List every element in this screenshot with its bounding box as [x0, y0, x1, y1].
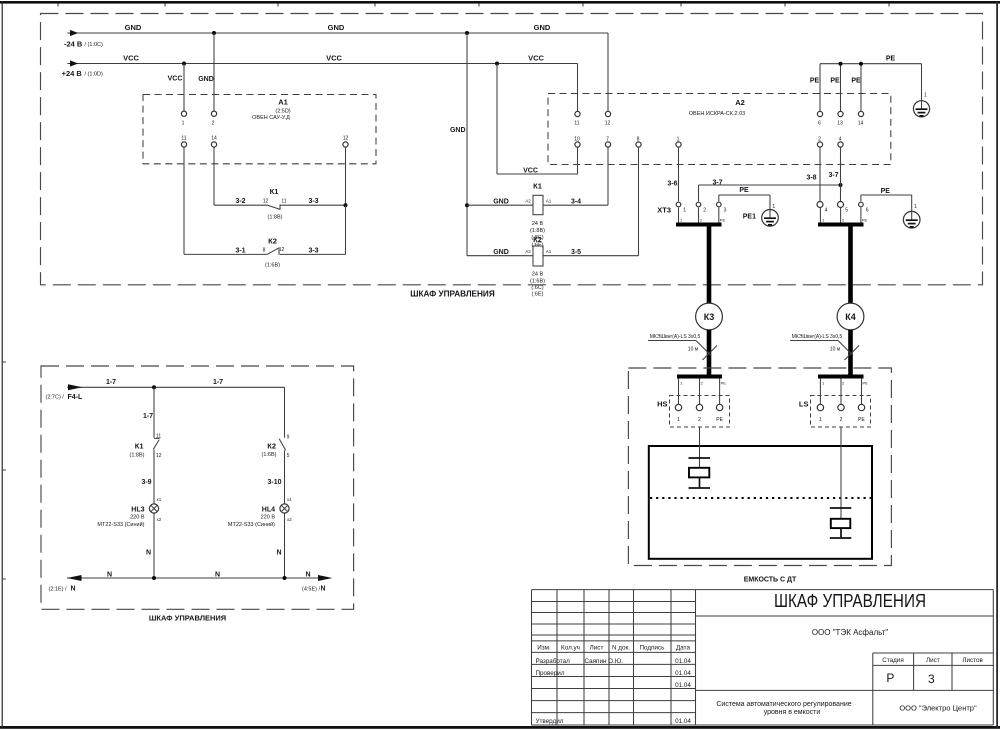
- title block table: [532, 590, 994, 725]
- svg-text:N док.: N док.: [612, 644, 630, 651]
- svg-text:(2:5D): (2:5D): [275, 108, 290, 114]
- junction N-HL3: [152, 576, 156, 580]
- wire A1.12 down to K1 row: [345, 147, 347, 205]
- svg-text:N: N: [321, 586, 326, 593]
- svg-text:ШКАФ УПРАВЛЕНИЯ: ШКАФ УПРАВЛЕНИЯ: [774, 590, 926, 611]
- wire 3-9: [141, 450, 154, 504]
- cabinet enclosure box bottom-left (ШКАФ УПРАВЛЕНИЯ lamps): [41, 366, 354, 623]
- svg-text:МТ22-S33 (Синий): МТ22-S33 (Синий): [97, 521, 144, 528]
- svg-text:VCC: VCC: [528, 53, 544, 62]
- svg-text:ООО "Электро Центр": ООО "Электро Центр": [899, 704, 977, 713]
- wire right vertical K1 to K2 row: [345, 205, 347, 254]
- lamp HL3: [97, 497, 161, 528]
- title block drawing name: [774, 590, 926, 637]
- svg-text:1: 1: [914, 204, 917, 210]
- svg-text:13: 13: [837, 121, 843, 127]
- cable label W2 МКЭШвнг(А)-LS 3x0,5: [790, 334, 859, 360]
- junction 1-7 left branch: [152, 385, 156, 389]
- wire 3-6 A2 pin1 to XT3.1: [667, 147, 678, 201]
- coil K1: [467, 182, 608, 249]
- svg-text:2: 2: [842, 381, 845, 386]
- tank enclosure box (ЕМКОСТЬ С ДТ): [628, 368, 891, 583]
- junction VCC feed: [495, 62, 499, 66]
- svg-text:3-2: 3-2: [235, 198, 245, 205]
- sensor gland bar HS: [677, 375, 726, 405]
- svg-text:5: 5: [287, 453, 290, 459]
- wire PE to A2 pin 6: [819, 64, 821, 112]
- svg-text:HS: HS: [657, 399, 667, 408]
- pin A2.14: [858, 111, 864, 126]
- svg-text:ШКАФ УПРАВЛЕНИЯ: ШКАФ УПРАВЛЕНИЯ: [410, 290, 495, 299]
- title block header row: [537, 644, 690, 651]
- svg-text:(1:6В): (1:6В): [265, 263, 280, 269]
- svg-text:01.04: 01.04: [675, 658, 691, 665]
- svg-text:x2: x2: [287, 517, 292, 522]
- controller A1 ОВЕН САУ-У.Д: [143, 95, 376, 164]
- svg-text:GND: GND: [534, 23, 551, 32]
- svg-text:Утвердил: Утвердил: [536, 718, 564, 725]
- svg-text:(:6С): (:6С): [531, 285, 543, 291]
- svg-text:A1: A1: [546, 198, 552, 203]
- svg-text:N: N: [215, 572, 220, 579]
- svg-text:GND: GND: [328, 23, 345, 32]
- title block stage cells: [882, 657, 983, 686]
- junction PE-14: [859, 62, 863, 66]
- junction GND main vertical: [465, 31, 469, 35]
- svg-text:VCC: VCC: [523, 168, 538, 175]
- svg-text:01.04: 01.04: [675, 682, 691, 689]
- wire GND drop to A1 pin 2: [198, 33, 214, 111]
- svg-text:1: 1: [819, 417, 822, 423]
- wire PE to A2 pin 13: [840, 64, 842, 112]
- net GND bus -24V: [64, 23, 608, 48]
- svg-text:6: 6: [866, 207, 869, 213]
- svg-text:14: 14: [211, 136, 217, 142]
- pin A1.14: [211, 136, 217, 147]
- svg-text:К3: К3: [704, 312, 715, 322]
- svg-text:3-1: 3-1: [235, 247, 245, 254]
- wire K1 coil to A2 pin 7: [607, 147, 609, 205]
- pin A2.6: [817, 111, 822, 126]
- svg-text:PE: PE: [716, 417, 723, 423]
- svg-text:1-7: 1-7: [143, 413, 153, 420]
- svg-text:1: 1: [680, 218, 683, 223]
- contact K1 lamp circuit: [130, 433, 162, 459]
- contact K1 (aux): [214, 187, 346, 221]
- wire PE to A2 pin 14: [860, 64, 862, 112]
- svg-text:К2: К2: [267, 441, 276, 450]
- junction N-HL4: [283, 576, 287, 580]
- svg-text:N: N: [107, 572, 112, 579]
- svg-text:3: 3: [724, 207, 727, 213]
- svg-text:К2: К2: [268, 237, 277, 246]
- svg-text:ХТ3: ХТ3: [657, 205, 671, 214]
- svg-text:3-4: 3-4: [571, 199, 581, 206]
- svg-text:3-3: 3-3: [308, 198, 318, 205]
- svg-text:11: 11: [574, 121, 579, 127]
- fuel level dotted line: [650, 497, 871, 499]
- svg-text:PE: PE: [810, 77, 820, 84]
- svg-text:(1:8В): (1:8В): [130, 452, 145, 458]
- svg-text:3-5: 3-5: [571, 249, 581, 256]
- svg-text:F4-L: F4-L: [68, 394, 84, 401]
- wire LS to sensor: [840, 427, 842, 519]
- svg-text:PE: PE: [739, 187, 749, 194]
- net F4-L 1-7 top bus: [46, 379, 285, 401]
- junction K1/A1.12: [344, 203, 348, 207]
- svg-text:GND: GND: [198, 76, 214, 83]
- svg-text:К4: К4: [845, 312, 856, 322]
- svg-text:3-3: 3-3: [308, 247, 318, 254]
- svg-text:PE: PE: [721, 381, 727, 386]
- junction PE-13: [839, 62, 843, 66]
- wire 3-10: [267, 450, 284, 504]
- wire A1.11 down to K2 row: [183, 147, 185, 254]
- pin A2.7: [605, 136, 610, 147]
- terminal XT3.3: [717, 202, 727, 213]
- svg-text:6: 6: [818, 121, 821, 127]
- svg-text:N: N: [71, 586, 76, 593]
- coil K2: [467, 235, 639, 298]
- svg-text:Стадия: Стадия: [882, 657, 903, 664]
- wire right branch from bus corner: [284, 387, 286, 437]
- svg-text:МКЭШвнг(А)-LS 3х0,5: МКЭШвнг(А)-LS 3х0,5: [650, 334, 701, 340]
- wire A2 pin4 to XT3.5: [840, 147, 842, 201]
- svg-text:12: 12: [156, 453, 162, 459]
- svg-text:3: 3: [928, 672, 935, 686]
- pin A2.2: [817, 136, 822, 147]
- svg-text:2: 2: [701, 381, 704, 386]
- svg-text:A2: A2: [525, 198, 531, 203]
- svg-text:Проверил: Проверил: [536, 670, 565, 677]
- svg-text:Листов: Листов: [962, 657, 983, 664]
- junction GND-K1 coil: [465, 203, 469, 207]
- svg-text:Кол.уч: Кол.уч: [561, 644, 580, 651]
- svg-text:1: 1: [822, 218, 825, 223]
- cable W1 upper: [707, 227, 712, 304]
- wire VCC drop to A1 pin 1: [168, 64, 184, 112]
- svg-text:Изм.: Изм.: [537, 644, 551, 651]
- sensor gland bar LS: [818, 375, 868, 405]
- pin A2.12: [605, 111, 611, 126]
- svg-text:GND: GND: [493, 249, 509, 256]
- terminal strip XT3: [657, 205, 671, 214]
- svg-text:(:6Е): (:6Е): [532, 292, 544, 298]
- svg-text:А1: А1: [278, 97, 288, 106]
- svg-text:PE: PE: [863, 381, 869, 386]
- svg-text:ЕМКОСТЬ С ДТ: ЕМКОСТЬ С ДТ: [744, 576, 797, 583]
- wire HL3 to N bus: [146, 513, 154, 578]
- svg-text:А2: А2: [735, 98, 745, 107]
- svg-text:VCC: VCC: [326, 53, 342, 62]
- pin A2.10: [574, 136, 580, 147]
- svg-text:24 В: 24 В: [532, 221, 544, 227]
- svg-text:VCC: VCC: [123, 53, 139, 62]
- svg-text:2: 2: [212, 121, 215, 127]
- svg-text:К1: К1: [135, 441, 144, 450]
- level sensor HS (high): [689, 458, 711, 488]
- pin LS.PE: [858, 404, 865, 423]
- title block signature rows: [536, 657, 692, 725]
- ground PE right: [903, 204, 920, 228]
- svg-text:5: 5: [845, 207, 848, 213]
- svg-text:10 м: 10 м: [830, 347, 841, 353]
- svg-text:Разработал: Разработал: [536, 657, 571, 665]
- svg-text:К2: К2: [533, 235, 542, 244]
- svg-text:3-7: 3-7: [828, 172, 838, 179]
- svg-text:12: 12: [263, 198, 269, 204]
- svg-text:1: 1: [683, 207, 686, 213]
- svg-text:(1:8В): (1:8В): [268, 215, 283, 221]
- tank vessel: [649, 446, 872, 559]
- svg-text:PE: PE: [720, 218, 726, 223]
- svg-text:14: 14: [858, 121, 864, 127]
- svg-text:Система автоматического регули: Система автоматического регулирование: [716, 701, 851, 708]
- cable W2 lower: [848, 330, 853, 375]
- pin A2.4: [838, 136, 843, 147]
- svg-text:LS: LS: [799, 399, 809, 408]
- svg-text:(4:5E) /: (4:5E) /: [302, 586, 321, 592]
- svg-text:(2:1E) /: (2:1E) /: [49, 586, 68, 592]
- svg-text:11: 11: [281, 198, 286, 204]
- svg-text:Лист: Лист: [926, 657, 940, 664]
- svg-text:/ (1:0C): / (1:0C): [85, 42, 104, 48]
- wire K2 coil to A2 pin 8: [638, 147, 640, 256]
- cable marker K4: [837, 303, 864, 330]
- svg-text:МКЭШвнг(А)-LS 3х0,5: МКЭШвнг(А)-LS 3х0,5: [792, 334, 843, 340]
- svg-text:PE: PE: [862, 218, 868, 223]
- svg-text:PE1: PE1: [743, 213, 756, 220]
- junction 3-7: [839, 183, 843, 187]
- svg-text:2: 2: [842, 218, 845, 223]
- svg-text:Саяпин О.Ю.: Саяпин О.Ю.: [585, 658, 624, 665]
- svg-text:4: 4: [825, 207, 828, 213]
- contact K2 lamp circuit: [262, 434, 290, 459]
- pin HS.PE: [716, 404, 723, 423]
- pin A2.8: [636, 136, 641, 147]
- cable W1 lower: [707, 330, 712, 375]
- svg-text:(1:6В): (1:6В): [530, 278, 545, 284]
- svg-text:ООО "ТЭК Асфальт": ООО "ТЭК Асфальт": [812, 628, 888, 637]
- net 3-7: [699, 172, 841, 201]
- net VCC bus +24V: [62, 53, 578, 78]
- svg-text:PE: PE: [851, 77, 861, 84]
- net PE left: [719, 187, 770, 210]
- svg-text:1-7: 1-7: [213, 379, 223, 386]
- svg-text:PE: PE: [858, 417, 865, 423]
- svg-text:01.04: 01.04: [675, 670, 691, 677]
- svg-text:МТ22-S33 (Синий): МТ22-S33 (Синий): [228, 521, 275, 528]
- svg-text:+24 В: +24 В: [62, 69, 83, 78]
- terminal XT3.2: [696, 202, 706, 213]
- svg-text:2: 2: [700, 218, 703, 223]
- net PE right: [861, 188, 912, 212]
- svg-text:1-7: 1-7: [106, 379, 116, 386]
- title block description: [716, 701, 977, 716]
- relay module A2 ОВЕН ИСКРА-СК.2.03: [548, 94, 891, 165]
- svg-text:GND: GND: [493, 198, 509, 205]
- svg-text:2: 2: [703, 207, 706, 213]
- svg-text:(2:7C) /: (2:7C) /: [46, 395, 65, 401]
- svg-text:A2: A2: [525, 249, 531, 254]
- cable gland bar right: [818, 208, 868, 227]
- pin LS.2: [838, 404, 844, 423]
- pin A1.1: [181, 111, 186, 126]
- svg-text:HL3: HL3: [131, 507, 144, 514]
- svg-text:8: 8: [263, 248, 266, 254]
- svg-text:N: N: [146, 549, 151, 556]
- svg-text:1: 1: [182, 121, 185, 127]
- svg-text:1: 1: [822, 381, 825, 386]
- svg-text:ОВЕН САУ-У.Д: ОВЕН САУ-У.Д: [252, 115, 290, 121]
- wire A1.14 down to K1 row: [213, 147, 215, 205]
- svg-text:К1: К1: [533, 182, 542, 191]
- svg-text:N: N: [305, 572, 310, 579]
- terminal XT3.1: [676, 202, 686, 213]
- contact K2 (aux): [184, 237, 346, 269]
- svg-text:3-9: 3-9: [141, 479, 151, 486]
- svg-text:220 В: 220 В: [130, 515, 145, 521]
- cable gland bar left: [676, 208, 725, 227]
- svg-text:3-6: 3-6: [667, 181, 677, 188]
- pin LS.1: [817, 404, 823, 423]
- svg-text:12: 12: [279, 247, 285, 253]
- svg-text:9: 9: [287, 434, 290, 440]
- cable W2 upper: [848, 227, 853, 304]
- svg-text:ОВЕН ИСКРА-СК.2.03: ОВЕН ИСКРА-СК.2.03: [689, 111, 745, 117]
- svg-text:ШКАФ УПРАВЛЕНИЯ: ШКАФ УПРАВЛЕНИЯ: [149, 614, 226, 623]
- terminal XT3.6: [859, 202, 869, 213]
- pin A2.1: [676, 136, 681, 147]
- svg-text:Р: Р: [886, 671, 894, 685]
- svg-text:PE: PE: [830, 77, 840, 84]
- svg-text:GND: GND: [450, 127, 466, 134]
- svg-text:x2: x2: [157, 517, 162, 522]
- svg-text:PE: PE: [886, 56, 896, 63]
- ground PE top right: [913, 64, 929, 117]
- wire HS to sensor: [699, 427, 701, 468]
- svg-text:01.04: 01.04: [675, 718, 691, 725]
- junction GND-A1.2: [212, 31, 216, 35]
- cabinet enclosure box top (ШКАФ УПРАВЛЕНИЯ): [41, 14, 983, 299]
- ground PE1: [743, 204, 779, 226]
- svg-text:24 В: 24 В: [532, 272, 544, 278]
- svg-text:1: 1: [680, 381, 683, 386]
- svg-text:1: 1: [924, 93, 927, 99]
- sensor connector LS: [799, 396, 871, 428]
- wire VCC bus turns down to A2 pin 11: [577, 64, 579, 112]
- level sensor LS (low): [830, 508, 852, 538]
- svg-text:Дата: Дата: [676, 644, 690, 651]
- svg-text:10 м: 10 м: [688, 347, 699, 353]
- wire VCC feed to A2 pin 10: [497, 64, 578, 175]
- svg-text:2: 2: [840, 417, 843, 423]
- svg-text:3-10: 3-10: [267, 479, 281, 486]
- wire HL4 to N bus: [276, 513, 284, 578]
- pin A2.11: [574, 111, 580, 126]
- terminal XT3.4: [817, 202, 828, 214]
- svg-text:/ (1:0D): / (1:0D): [85, 71, 104, 77]
- wire GND bus turns down to A2 pin 12: [607, 33, 609, 111]
- svg-text:(1:8В): (1:8В): [530, 228, 545, 234]
- svg-text:Лист: Лист: [590, 644, 604, 651]
- svg-text:-24 В: -24 В: [64, 39, 83, 48]
- svg-text:N: N: [276, 549, 281, 556]
- svg-text:GND: GND: [125, 23, 142, 32]
- wire GND main vertical drop: [450, 33, 467, 256]
- svg-text:Подпись: Подпись: [640, 644, 666, 651]
- pin A1.11: [181, 136, 186, 147]
- pin A1.2: [211, 111, 216, 126]
- svg-text:x1: x1: [157, 497, 162, 502]
- wire left branch upper: [143, 387, 154, 437]
- svg-text:VCC: VCC: [168, 75, 183, 82]
- sensor connector HS: [657, 396, 729, 428]
- svg-text:К1: К1: [270, 187, 279, 196]
- svg-text:(1:6В): (1:6В): [262, 452, 277, 458]
- net PE bus top right: [810, 56, 922, 85]
- pin A1.12: [343, 136, 349, 147]
- svg-text:уровня в емкости: уровня в емкости: [764, 709, 821, 716]
- terminal XT3.5: [838, 202, 849, 214]
- svg-text:2: 2: [698, 417, 701, 423]
- cable marker K3: [696, 303, 723, 330]
- pin A2.13: [837, 111, 843, 126]
- svg-text:PE: PE: [881, 188, 891, 195]
- lamp HL4: [228, 497, 292, 528]
- svg-text:11: 11: [181, 136, 186, 142]
- svg-text:12: 12: [343, 136, 349, 142]
- pin HS.2: [696, 404, 702, 423]
- svg-text:HL4: HL4: [262, 507, 275, 514]
- svg-text:x1: x1: [287, 497, 292, 502]
- svg-text:1: 1: [772, 204, 775, 210]
- pin HS.1: [675, 404, 681, 423]
- svg-text:3-8: 3-8: [806, 175, 816, 182]
- wire 3-8 A2 pin2 to XT3.4: [806, 147, 820, 201]
- svg-text:1: 1: [677, 417, 680, 423]
- svg-text:12: 12: [605, 121, 611, 127]
- svg-text:220 В: 220 В: [261, 515, 276, 521]
- net N bottom bus: [49, 572, 333, 593]
- cable label W1 МКЭШвнг(А)-LS 3x0,5: [648, 334, 717, 360]
- svg-text:A1: A1: [546, 249, 552, 254]
- junction VCC-A1.1: [182, 62, 186, 66]
